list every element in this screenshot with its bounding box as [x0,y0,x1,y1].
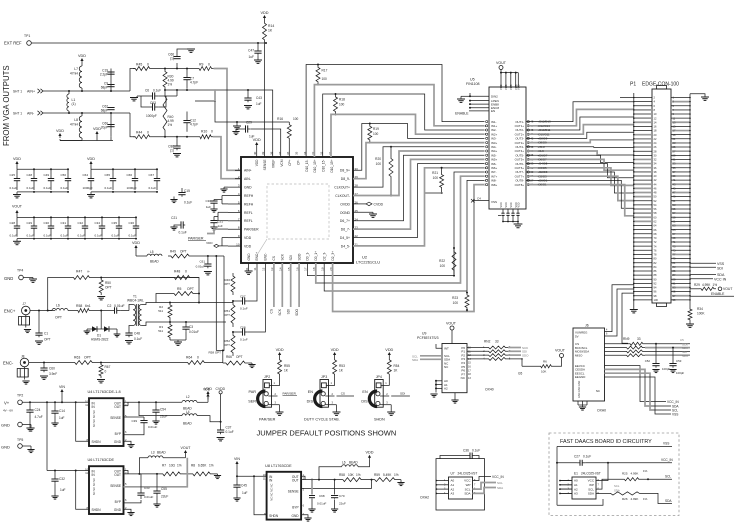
svg-text:100: 100 [322,77,328,81]
wire AIN- to ADC pin 2 [213,137,241,179]
pin 52 of P1 left [634,200,652,202]
capacitors C25 C48 C49 C50 bank [17,168,68,170]
svg-text:VDD: VDD [500,202,503,207]
pin 22 of P1 left [634,138,652,140]
svg-text:D6_7-: D6_7- [341,228,350,232]
svg-text:OUT: OUT [114,473,121,477]
wire L4 to CVDD node [197,416,221,422]
svg-text:D2_3+: D2_3+ [331,251,335,261]
svg-text:C64: C64 [83,173,89,177]
svg-text:C1: C1 [44,332,48,336]
svg-text:0.1uF: 0.1uF [134,337,142,341]
capacitor C15 0.1uF [181,191,183,193]
wire -D10/D11 to P1 [526,125,634,135]
svg-text:0: 0 [105,370,107,374]
node VOUT arrow [163,457,186,459]
wire D0_1- from U2 bottom [307,172,484,276]
regulator U6 LT1763CDE body [89,466,124,514]
ground for C50 [40,375,48,377]
svg-text:0.1uF: 0.1uF [153,89,161,93]
ground for C61 [204,271,212,273]
capacitor C12 4.7pF [186,112,188,121]
wire CLKOUT- route [353,151,485,196]
pin 56 of P1 left [634,208,652,210]
wire ENC- pin net to C58 [247,263,265,332]
pin 98 of P1 left [634,295,652,297]
svg-text:C29: C29 [246,121,252,125]
svg-text:1%: 1% [643,497,648,501]
label VCC IN right of P1 [690,278,713,280]
svg-text:1%: 1% [356,473,361,477]
svg-text:R47: R47 [76,270,82,274]
wire P1 left ground bus [633,93,635,310]
wire to R67 [95,362,185,364]
svg-text:C28: C28 [10,221,16,225]
wire D10_15 pair B bottom [331,114,485,157]
svg-text:37: 37 [278,151,282,155]
power VDD for L5 line [135,247,137,251]
svg-text:C70: C70 [339,494,345,498]
pin 47 of P1 right [671,191,690,193]
pin 24 of P1 left [634,142,652,144]
svg-text:OPT: OPT [224,313,230,317]
ground for C29 [232,131,239,133]
svg-text:FROM VGA OUTPUTS: FROM VGA OUTPUTS [2,65,11,146]
svg-text:U8 LT1763CDE: U8 LT1763CDE [265,464,292,468]
svg-text:0: 0 [185,270,187,274]
svg-text:C21: C21 [171,216,177,220]
svg-text:GND: GND [1,445,10,450]
wire SCL bus into U9 [420,355,442,357]
svg-text:SDO: SDO [522,354,529,358]
svg-text:6n1: 6n1 [85,304,91,308]
pin 42 of P1 left [634,179,652,181]
pins of JP2 [269,384,277,386]
svg-text:C45: C45 [241,484,247,488]
svg-text:38: 38 [270,151,274,155]
svg-text:100pF: 100pF [662,367,670,371]
svg-text:-D0/D1: -D0/D1 [538,183,548,187]
svg-text:ENC+: ENC+ [4,309,16,314]
capacitor C48 0.1uF under T1 [128,330,130,333]
wire AIN+ line [43,90,130,92]
svg-text:1uF: 1uF [218,224,223,228]
wire AIN+ cap column [110,69,112,92]
svg-text:C14: C14 [59,409,65,413]
pin 84 of P1 left [634,266,652,268]
ground for C24 [29,414,31,428]
svg-text:100: 100 [453,301,459,305]
capacitor C52 100pF [655,343,657,345]
wire BYP U8 [301,507,312,509]
wire INT pin stub of U9 [436,344,442,348]
pin 9 of P1 right [671,113,690,115]
svg-text:C3: C3 [189,325,193,329]
ground P1 top right [690,94,705,97]
svg-text:JP2: JP2 [264,375,270,379]
svg-text:INT: INT [444,347,449,351]
wire U6 SENSE to VOUT [124,458,188,487]
svg-text:VOUT: VOUT [12,205,23,209]
wire RN2 row4 to G5 [508,359,522,366]
svg-text:U5: U5 [470,78,475,82]
wire D4_5+ route [353,164,485,238]
pin 74 of P1 left [634,245,652,247]
pin 15 of P1 right [671,125,690,127]
svg-text:OPT: OPT [236,355,243,359]
resistor R30 4.99K [163,69,167,91]
resistor R66 OPT [216,362,229,364]
ground for C68 [311,499,313,509]
capacitor C3 0.01uF [185,322,187,325]
svg-text:R49: R49 [170,250,176,254]
svg-text:VDD: VDD [331,348,339,352]
wire SHDN loop U6 [76,471,89,510]
svg-text:VREF: VREF [272,159,276,168]
wire -D4/D5 to P1 [526,168,634,186]
wire E1 pins to left rail [560,480,572,482]
svg-text:10K: 10K [541,370,546,374]
pin 26 of P1 left [634,146,652,148]
svg-text:R34: R34 [697,307,703,311]
ground for R3 C3 [170,339,186,341]
ground for R59 [398,479,401,481]
svg-text:OPT: OPT [55,316,62,320]
svg-text:VDD: VDD [13,157,21,161]
svg-text:R14: R14 [268,24,274,28]
power VDD for R55 [279,354,281,358]
svg-text:C32: C32 [59,477,65,481]
ground for U5 enable pins [457,98,465,100]
svg-text:0: 0 [147,63,149,67]
svg-text:OXA2: OXA2 [420,496,429,500]
pin 86 of P1 left [634,270,652,272]
svg-text:AIN-: AIN- [244,177,251,181]
node R14/C47/EXTREF junction [265,42,267,44]
wire VCC_IN line [585,462,672,464]
wire CVDD down to C37 [220,394,222,430]
svg-text:TP1: TP1 [24,34,30,38]
wire V+ down to U6 [46,402,48,470]
svg-text:0.1uF: 0.1uF [95,234,103,238]
svg-text:(1): (1) [170,57,174,61]
pin 43 of P1 right [671,183,690,185]
inductor L6 BEAD [342,465,358,467]
ground for C14 [54,415,56,423]
svg-text:R44: R44 [136,131,142,135]
pin 66 of P1 left [634,229,652,231]
pin 6 of P1 left [634,105,652,107]
svg-text:PAR/SER: PAR/SER [188,237,204,241]
resistor R55 1K [278,357,282,377]
wire OUT up to L6 [319,467,342,480]
svg-text:4.7pF: 4.7pF [190,81,198,85]
svg-text:C48: C48 [134,332,140,336]
wire +D0/D1 to P1 [526,180,634,208]
svg-text:R66: R66 [226,355,232,359]
pin 16 of P1 left [634,125,652,127]
svg-text:R50: R50 [105,281,111,285]
pins of JP3 [326,384,334,386]
svg-text:100K: 100K [697,312,705,316]
wire RN2 to SCK label [508,347,521,349]
wire U8 OUT rail [301,475,319,477]
pin 10 of P1 left [634,113,652,115]
svg-text:L2: L2 [186,395,190,399]
svg-text:0.01uF: 0.01uF [144,495,154,499]
ground for P1 left bus [630,309,638,311]
wire R53 to JP3 pin1 [334,377,336,385]
svg-text:VDD: VDD [253,138,261,142]
capacitor C33 0.01uF [124,500,142,503]
ground for D1 right [112,328,117,330]
label ENABLE right of P1 [690,295,734,297]
jumper JP3 shunt [315,391,323,407]
capacitor C45 1uF [236,476,238,483]
svg-text:C36: C36 [463,449,469,453]
svg-text:VDD: VDD [132,241,140,245]
svg-text:SCL: SCL [665,475,671,479]
svg-text:R45: R45 [136,63,142,67]
ground for C48 [125,340,133,342]
pin 51 of P1 right [671,200,690,202]
svg-text:C6: C6 [145,89,149,93]
pin 19 of P1 right [671,134,690,136]
svg-text:J7: J7 [23,302,27,306]
svg-text:R29: R29 [694,283,700,287]
wire RN2 to SDO label [508,354,521,356]
svg-text:U4 LT1763CDE-1.8: U4 LT1763CDE-1.8 [88,390,121,394]
svg-text:RN2: RN2 [484,340,491,344]
svg-text:SDI: SDI [400,392,405,396]
wire A0 A1 A2 tie to ground [436,380,442,382]
ground for JP2 [279,405,281,412]
svg-text:C5: C5 [680,338,684,342]
svg-text:0.01uF: 0.01uF [189,330,199,334]
ground U4 GND pin [124,441,132,444]
svg-text:SCL: SCL [497,481,503,485]
svg-text:HSMS-2822: HSMS-2822 [91,338,109,342]
svg-text:SDA: SDA [412,358,418,362]
wire -D6/D7 to P1 [526,159,634,170]
svg-text:D4_5-: D4_5- [341,244,350,248]
ground for C30 [213,205,215,209]
capacitor C55 22uF [156,474,158,489]
svg-text:CS: CS [341,392,345,396]
svg-text:1uF: 1uF [206,205,211,209]
svg-text:SENSE: SENSE [110,484,121,488]
ground for C45 [236,489,238,498]
svg-text:C60: C60 [49,367,55,371]
ground for U9 GND pin [454,393,456,400]
svg-text:U7: U7 [451,472,455,476]
svg-text:BEAD: BEAD [349,461,358,465]
svg-text:NC NC NC NC: NC NC NC NC [92,478,96,495]
svg-text:GND GND GND: GND GND GND [578,380,581,398]
pin 11 of P1 right [671,117,690,119]
svg-text:SDI: SDI [289,255,293,260]
power VDD for R54 [388,354,390,358]
svg-text:C49: C49 [44,173,50,177]
pin 99 of P1 right [671,299,690,301]
svg-text:SDA: SDA [588,492,594,496]
svg-text:OPT: OPT [84,356,91,360]
svg-text:11: 11 [253,267,257,270]
svg-text:GND: GND [1,423,10,428]
capacitor C14 1uF [54,402,56,409]
wire PAR/SER net from pin 8 [207,229,228,233]
svg-text:0.1uF: 0.1uF [179,231,187,235]
wire SDI stub of U2 [290,263,292,307]
svg-text:68pF: 68pF [101,109,108,113]
pin 21 of P1 right [671,138,690,140]
ground for J6 GND pins [577,401,579,405]
svg-text:VDD: VDD [56,129,64,133]
svg-text:SDA: SDA [464,492,470,496]
capacitor C70 22uF [334,480,336,494]
svg-text:100: 100 [433,176,439,180]
wire SDA from U7 [473,488,497,494]
capacitor C9 [110,84,112,86]
svg-text:6.65K: 6.65K [198,464,207,468]
svg-text:R10: R10 [201,130,207,134]
svg-text:R19: R19 [373,127,379,131]
wire C29 to VCM pin 37 [251,129,281,157]
power VDD mid [96,133,98,137]
ground for C47 [257,55,259,60]
svg-text:47nH: 47nH [70,72,79,76]
pin 65 of P1 right [671,229,690,231]
pin 68 of P1 left [634,233,652,235]
wire SHDN loop U4 [76,402,89,441]
capacitor C39 0.01uF [134,401,136,403]
svg-text:100: 100 [293,117,299,121]
pin 67 of P1 right [671,233,690,235]
wire -D12/D13 to P1 [526,109,634,125]
svg-text:C66: C66 [127,173,133,177]
pin 7 of P1 right [671,109,690,111]
pin group EN of U5 [470,95,489,97]
ground for U2 GND pin3 [224,186,228,188]
pin 32 of P1 left [634,158,652,160]
pin 94 of P1 left [634,286,652,288]
svg-text:SCK: SCK [278,308,282,315]
svg-text:DIS: DIS [307,400,314,404]
ground for TP4 [23,277,33,279]
wire VREF node to pin 38 [252,90,273,157]
svg-text:0.1uF: 0.1uF [44,234,52,238]
capacitor C66 to ground [176,63,178,69]
inductor L2 BEAD [182,400,197,402]
svg-text:L5: L5 [150,250,154,254]
svg-text:VDD: VDD [203,388,211,392]
power VDD for R14 [264,17,266,21]
pin 46 of P1 left [634,187,652,189]
wire left rail of ID box [556,447,558,506]
ground for bank 1 [16,192,18,195]
svg-text:JUMPER DEFAULT POSITIONS SHOWN: JUMPER DEFAULT POSITIONS SHOWN [257,429,397,438]
power VDD from L6 [358,460,370,467]
svg-text:VDD: VDD [504,84,508,90]
svg-text:0.1uF: 0.1uF [149,186,157,190]
svg-text:GND: GND [114,440,122,444]
svg-text:40: 40 [253,151,257,155]
resistor R18 100 [334,94,338,114]
svg-text:D0_1-: D0_1- [306,252,310,261]
pin 73 of P1 right [671,245,690,247]
svg-text:CS: CS [270,309,274,313]
svg-text:GND: GND [244,186,252,190]
wire L4 branch [139,402,182,415]
ground for bank 2 [90,192,92,195]
pin 18 of P1 left [634,130,652,132]
svg-text:FAST DAACS BOARD ID CIRCUITRY: FAST DAACS BOARD ID CIRCUITRY [560,439,652,445]
svg-text:CS: CS [272,256,276,260]
svg-text:0: 0 [147,131,149,135]
svg-text:R20: R20 [375,157,381,161]
svg-text:R22: R22 [439,259,445,263]
svg-text:1%: 1% [394,473,399,477]
pin 25 of P1 right [671,146,690,148]
svg-text:BYP: BYP [115,432,121,436]
resistor R34 100K [689,305,691,307]
resistor R14 1K [263,20,267,43]
svg-text:A3: A3 [451,492,455,496]
label SDI right of P1 [690,266,716,268]
svg-text:0.1uF: 0.1uF [27,234,35,238]
svg-text:AIN-: AIN- [27,111,35,115]
svg-text:10Ω: 10Ω [169,464,176,468]
pins bottom of U5 bypass caps [498,215,501,217]
pin 61 of P1 right [671,220,690,222]
ground for R8 [213,473,218,475]
wire ID box bottom loop [557,499,603,505]
svg-text:VIN: VIN [59,385,65,389]
wire secondary top net [156,302,233,304]
svg-text:41: 41 [245,267,249,271]
pin 55 of P1 right [671,208,690,210]
svg-text:C50: C50 [61,173,67,177]
svg-text:1K: 1K [268,29,273,33]
svg-text:VDD: VDD [87,157,95,161]
wire filter top line [152,68,197,70]
svg-text:TP2: TP2 [17,394,23,398]
wire up to R47 line [48,278,71,311]
svg-text:C39: C39 [131,419,137,423]
svg-text:C24: C24 [35,408,41,412]
capacitor C37 0.1uF [220,429,222,431]
svg-text:D10_15+: D10_15+ [330,159,334,172]
svg-text:IN8+: IN8+ [491,183,497,187]
power VDD cap bank 2 [90,163,92,167]
svg-text:C30: C30 [44,221,50,225]
capacitor C1 OPT [38,311,40,332]
svg-text:24LC025-I/ST: 24LC025-I/ST [581,472,601,476]
svg-text:0.01uF: 0.01uF [114,304,125,308]
svg-text:VDD: VDD [244,236,252,240]
svg-text:R53: R53 [339,364,345,368]
svg-text:OUT: OUT [114,405,121,409]
capacitor C30 1uF on REFH [222,195,228,197]
svg-text:1%: 1% [643,469,648,473]
wire D10_15 pair A bottom [314,85,484,157]
svg-text:22uF: 22uF [160,415,167,419]
svg-text:D8_9-: D8_9- [341,177,350,181]
svg-text:R58: R58 [339,473,345,477]
jumper JP4 shunt [369,391,377,407]
svg-text:REFH: REFH [244,194,254,198]
power VDD to pin 40 [256,144,258,148]
